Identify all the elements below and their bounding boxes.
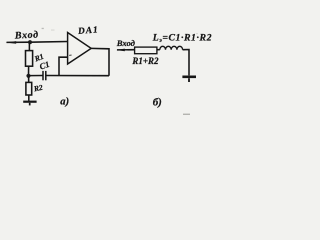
wire output feedback loop xyxy=(91,48,109,75)
input terminal arrow (fig a) xyxy=(6,41,17,44)
capacitor C1 xyxy=(43,71,46,80)
resistor R1 xyxy=(26,51,33,67)
inverting input mark xyxy=(69,54,71,56)
node R1/R2/C1 junction xyxy=(26,74,30,78)
inductor Lэ xyxy=(160,46,183,49)
wire inductor to ground xyxy=(183,50,189,76)
wire R2 top lead xyxy=(28,77,30,82)
resistor R2 xyxy=(26,82,32,95)
input terminal arrow (fig b) xyxy=(116,49,125,52)
svg-text:б): б) xyxy=(153,96,162,108)
wire R1 bottom lead xyxy=(28,66,30,75)
wire inverting input xyxy=(59,57,68,75)
ground (fig a) xyxy=(23,102,36,106)
svg-text:R1+R2: R1+R2 xyxy=(131,56,159,66)
wire node to C1 xyxy=(29,75,43,77)
resistor R1+R2 xyxy=(135,47,157,54)
svg-text:Вход: Вход xyxy=(14,29,39,41)
op-amp DA1 xyxy=(68,33,92,65)
wire C1 to feedback node xyxy=(46,75,109,77)
wire R1 top lead xyxy=(28,42,30,50)
node input/R1 junction xyxy=(28,40,32,44)
ground (fig b) xyxy=(182,77,196,82)
svg-text:а): а) xyxy=(60,96,69,107)
wire R1+R2 to inductor xyxy=(157,49,160,51)
wire input to R1+R2 xyxy=(117,49,135,51)
wire input to op-amp top input xyxy=(7,41,68,44)
svg-text:DA1: DA1 xyxy=(77,25,100,37)
wire R2 bottom lead xyxy=(28,95,30,101)
svg-text:Вход: Вход xyxy=(116,38,136,48)
